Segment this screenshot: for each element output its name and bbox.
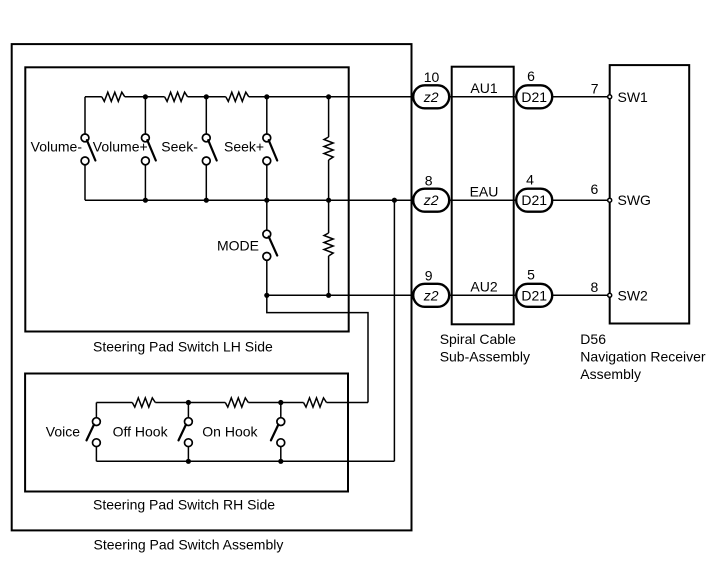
- svg-text:z2: z2: [423, 192, 439, 208]
- svg-text:10: 10: [424, 69, 440, 85]
- svg-text:SWG: SWG: [618, 192, 651, 208]
- svg-text:D21: D21: [521, 89, 547, 105]
- svg-text:6: 6: [591, 181, 599, 197]
- svg-text:Spiral Cable: Spiral Cable: [440, 331, 516, 347]
- svg-text:AU1: AU1: [470, 80, 497, 96]
- svg-text:EAU: EAU: [470, 184, 499, 200]
- svg-text:9: 9: [425, 268, 433, 284]
- svg-text:Steering Pad Switch LH Side: Steering Pad Switch LH Side: [93, 338, 273, 354]
- svg-text:Navigation Receiver: Navigation Receiver: [580, 349, 706, 365]
- svg-text:7: 7: [591, 81, 599, 97]
- svg-text:Volume+: Volume+: [93, 139, 148, 155]
- svg-text:z2: z2: [423, 89, 439, 105]
- svg-text:z2: z2: [423, 287, 439, 303]
- svg-text:Voice: Voice: [46, 424, 80, 440]
- svg-text:Steering Pad Switch RH Side: Steering Pad Switch RH Side: [93, 496, 275, 512]
- svg-text:Steering Pad Switch Assembly: Steering Pad Switch Assembly: [94, 537, 284, 553]
- svg-text:Sub-Assembly: Sub-Assembly: [440, 349, 530, 365]
- svg-text:SW2: SW2: [618, 287, 649, 303]
- svg-text:Seek+: Seek+: [224, 139, 264, 155]
- svg-text:Volume-: Volume-: [31, 139, 83, 155]
- svg-text:On Hook: On Hook: [202, 424, 258, 440]
- svg-text:Seek-: Seek-: [161, 139, 198, 155]
- svg-text:D21: D21: [521, 192, 547, 208]
- svg-text:D56: D56: [580, 331, 606, 347]
- svg-text:5: 5: [527, 266, 535, 282]
- svg-text:Off Hook: Off Hook: [113, 424, 169, 440]
- svg-text:MODE: MODE: [217, 238, 259, 254]
- svg-text:AU2: AU2: [470, 279, 497, 295]
- svg-text:D21: D21: [521, 287, 547, 303]
- svg-text:8: 8: [591, 279, 599, 295]
- svg-text:Assembly: Assembly: [580, 366, 641, 382]
- svg-text:8: 8: [425, 172, 433, 188]
- svg-text:4: 4: [526, 172, 534, 188]
- svg-text:SW1: SW1: [618, 89, 649, 105]
- svg-text:6: 6: [527, 68, 535, 84]
